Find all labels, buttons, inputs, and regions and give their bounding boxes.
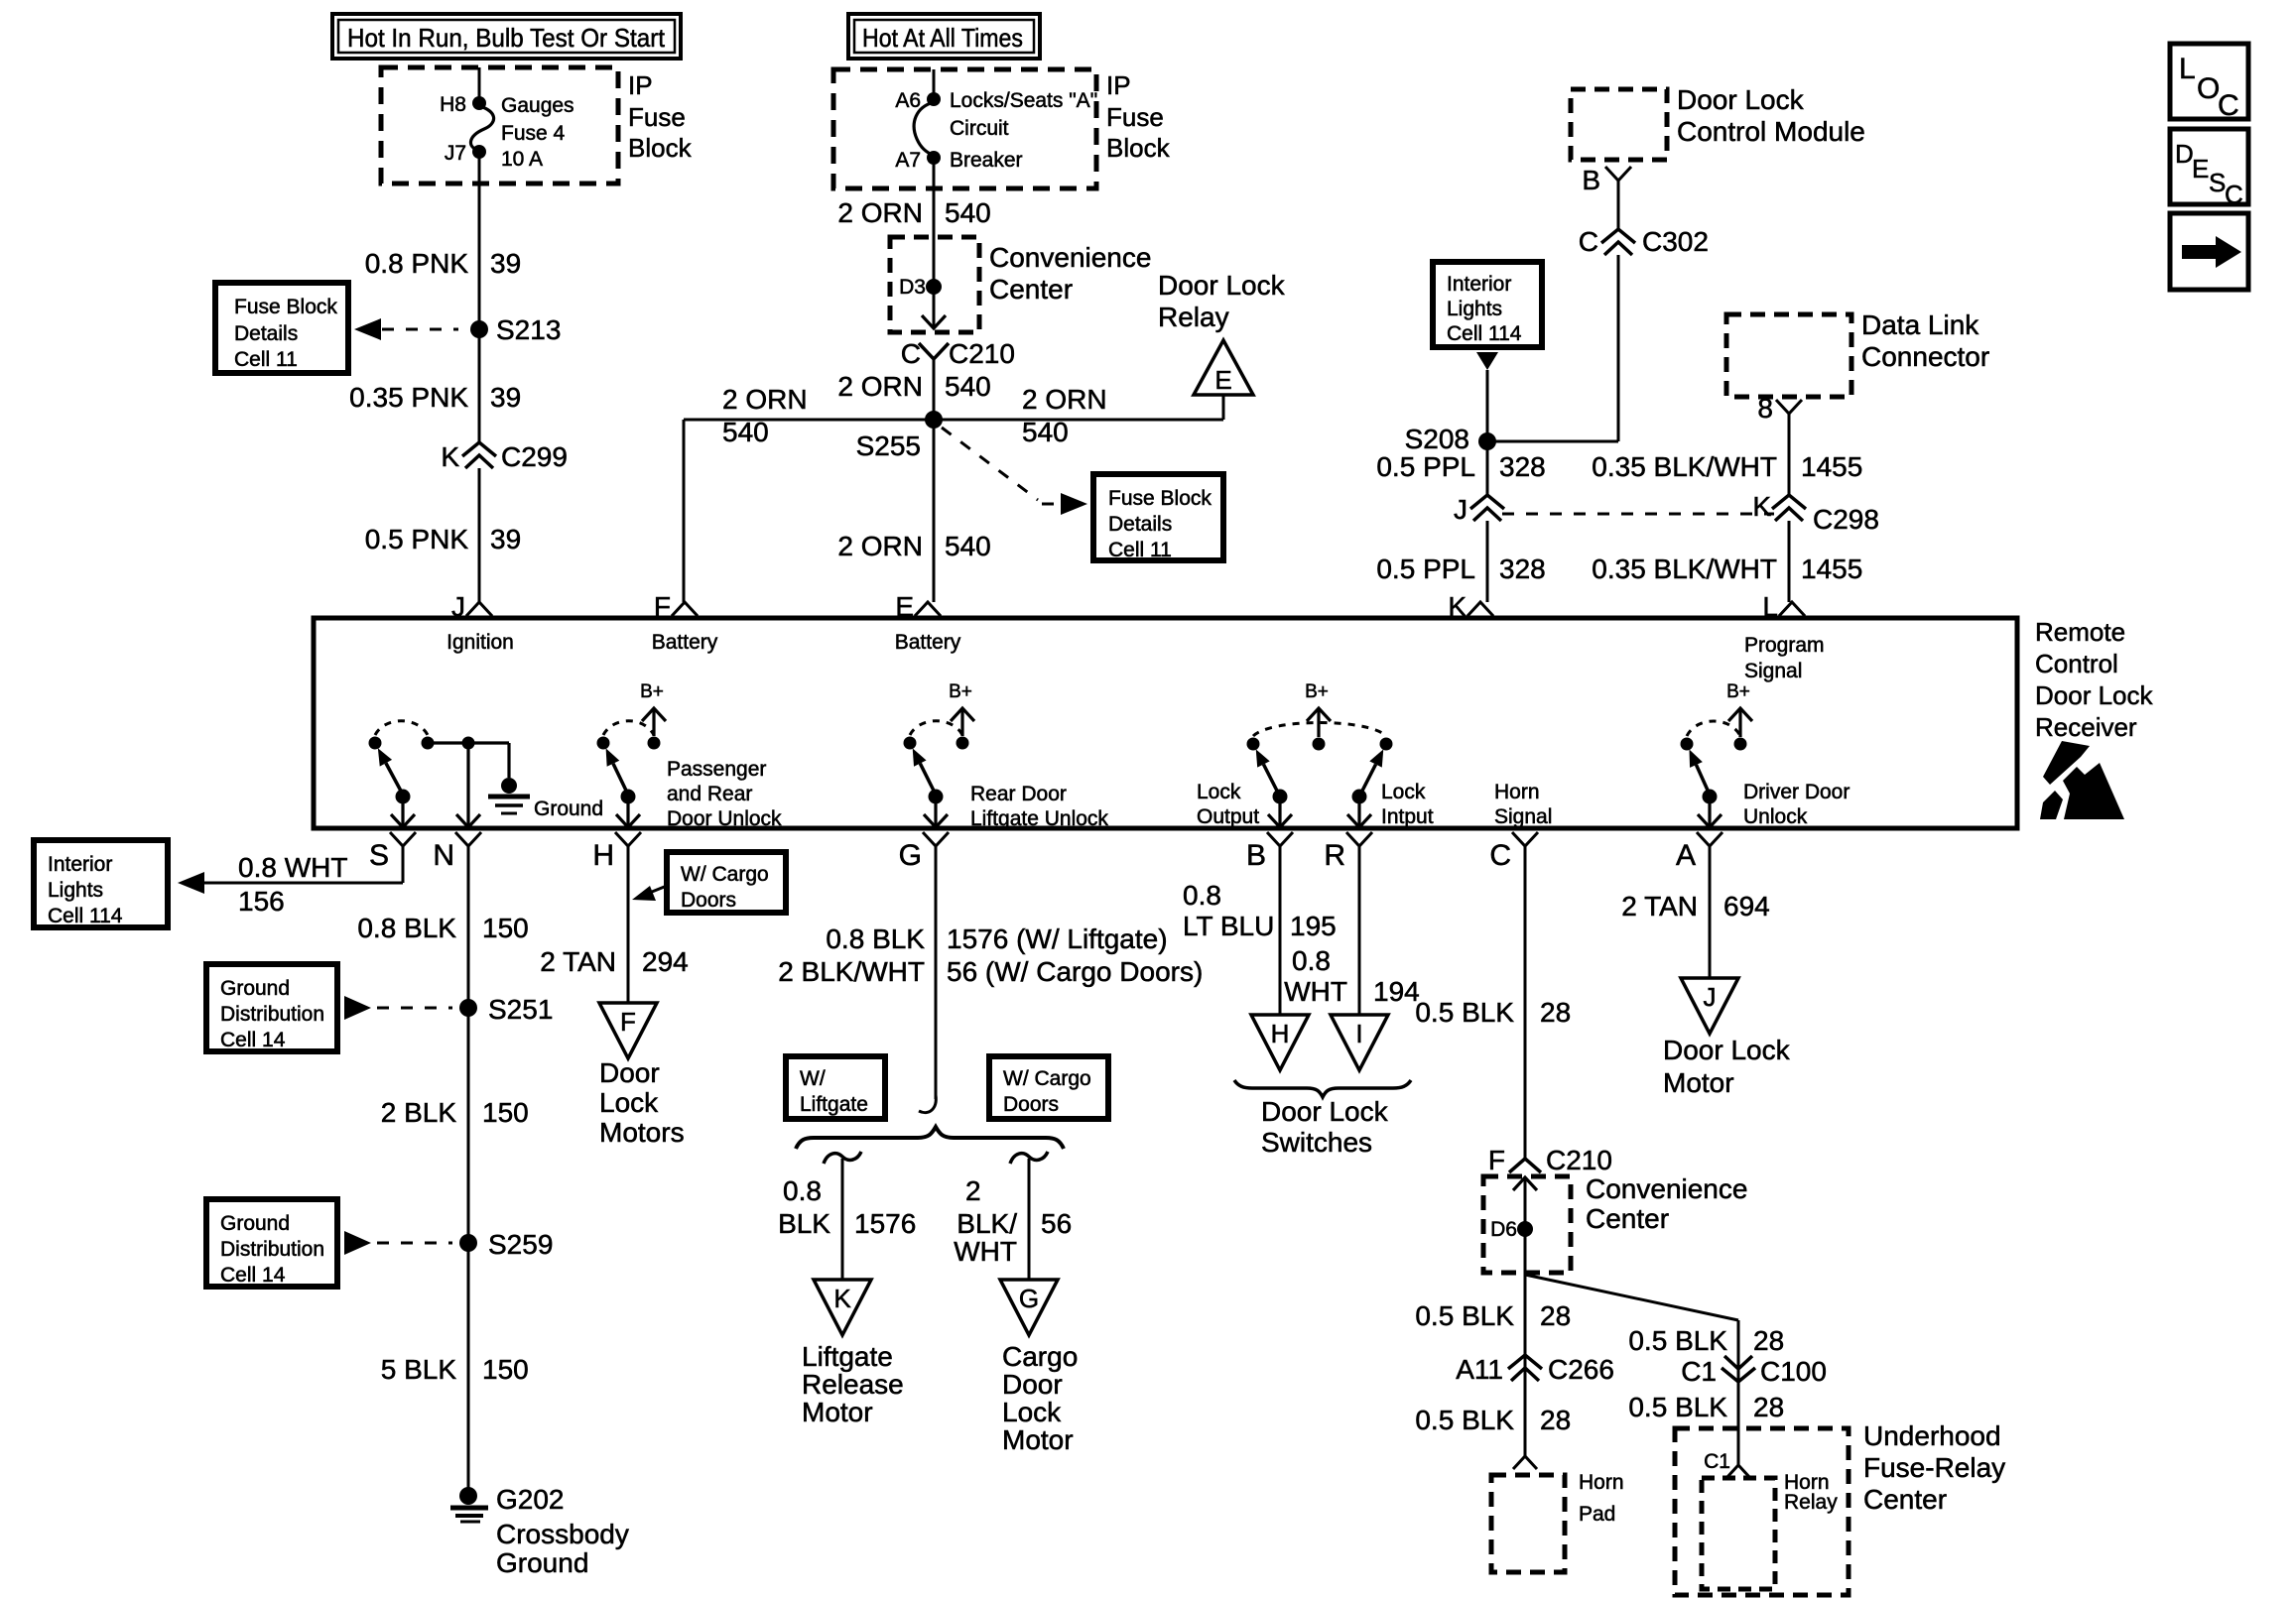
svg-text:and Rear: and Rear xyxy=(667,783,752,805)
off-page triangle F door lock motors xyxy=(599,1003,657,1058)
svg-text:Underhood: Underhood xyxy=(1863,1420,2001,1451)
svg-text:0.8 PNK: 0.8 PNK xyxy=(365,248,469,279)
splice S255 xyxy=(856,411,943,461)
wire: 0.5 PPL 328 from S208 to connector J xyxy=(1486,441,1489,496)
receiver label Battery (F) xyxy=(652,631,718,654)
wire: 0.8 PNK 39 from fuse J7 to S213 xyxy=(478,152,481,329)
svg-text:0.5 PPL: 0.5 PPL xyxy=(1376,451,1475,482)
svg-text:Motor: Motor xyxy=(1663,1067,1734,1098)
svg-text:D6: D6 xyxy=(1490,1218,1517,1241)
connector C298 pin K xyxy=(1752,491,1879,535)
receiver label Ignition xyxy=(446,631,514,654)
svg-text:Motors: Motors xyxy=(599,1117,685,1148)
option box: W/ Cargo Doors (upper) xyxy=(667,852,786,913)
svg-text:Rear Door: Rear Door xyxy=(970,783,1067,805)
svg-text:Doors: Doors xyxy=(681,889,736,912)
svg-text:150: 150 xyxy=(482,1354,529,1385)
fuse Gauges Fuse 4 10A symbol xyxy=(470,106,493,151)
svg-text:28: 28 xyxy=(1753,1325,1784,1356)
dashed reference arrow to S259 xyxy=(344,1231,452,1255)
svg-text:C210: C210 xyxy=(949,338,1015,369)
wire label 0.35 BLK/WHT 1455 (upper) xyxy=(1592,451,1862,482)
svg-text:0.8 WHT: 0.8 WHT xyxy=(238,852,347,883)
Horn Relay label xyxy=(1784,1471,1838,1514)
fuse terminal H8 xyxy=(440,93,486,116)
reference box: Interior Lights Cell 114 (top) xyxy=(1433,262,1542,347)
Door Lock Motors label xyxy=(599,1057,685,1148)
splice S251 xyxy=(459,994,553,1025)
svg-text:Unlock: Unlock xyxy=(1743,805,1808,828)
ignition switch contacts xyxy=(369,721,435,750)
svg-text:B+: B+ xyxy=(640,681,664,702)
svg-text:Hot At All Times: Hot At All Times xyxy=(862,23,1023,53)
svg-text:C: C xyxy=(1489,839,1511,872)
svg-text:Center: Center xyxy=(1863,1484,1947,1515)
wire: 2 BLK 150 S251 to S259 xyxy=(467,1008,470,1243)
svg-text:Door: Door xyxy=(599,1057,660,1088)
svg-text:28: 28 xyxy=(1540,1300,1571,1331)
Door Lock Control Module dashed box xyxy=(1571,89,1667,160)
wire: feed into circuit breaker xyxy=(933,69,936,99)
Convenience Center (lower) label xyxy=(1586,1173,1747,1234)
horn relay pin C1 xyxy=(1704,1450,1750,1478)
wire label 2 BLK/WHT 56 xyxy=(954,1175,1072,1267)
svg-text:28: 28 xyxy=(1540,1405,1571,1435)
svg-text:C: C xyxy=(2218,89,2239,122)
legend box LOC xyxy=(2170,44,2248,122)
svg-text:0.5 BLK: 0.5 BLK xyxy=(1628,1325,1727,1356)
rear door liftgate B+ arrow xyxy=(949,681,974,736)
svg-text:Data Link: Data Link xyxy=(1861,309,1979,340)
door lock relay triangle E xyxy=(1194,340,1253,420)
receiver pin E xyxy=(895,591,941,622)
svg-text:150: 150 xyxy=(482,1097,529,1128)
svg-text:56 (W/ Cargo Doors): 56 (W/ Cargo Doors) xyxy=(947,956,1203,987)
svg-text:0.8: 0.8 xyxy=(1292,945,1331,976)
fuse terminal J7 xyxy=(445,142,486,165)
svg-text:Circuit: Circuit xyxy=(950,117,1009,140)
arrow into convenience center xyxy=(1513,1177,1537,1190)
svg-text:540: 540 xyxy=(722,417,769,447)
svg-text:Fuse: Fuse xyxy=(628,102,686,132)
svg-text:R: R xyxy=(1324,839,1345,872)
wire label 5 BLK 150 xyxy=(381,1354,529,1385)
svg-text:Block: Block xyxy=(1106,133,1171,163)
svg-text:Lock: Lock xyxy=(1002,1397,1062,1427)
arrow out of convenience center xyxy=(922,315,946,328)
svg-text:E: E xyxy=(895,591,914,622)
svg-text:0.8 BLK: 0.8 BLK xyxy=(826,923,925,954)
Underhood Fuse-Relay Center dashed box xyxy=(1675,1428,1849,1595)
svg-text:2 BLK: 2 BLK xyxy=(381,1097,457,1128)
svg-text:Horn: Horn xyxy=(1579,1471,1624,1494)
svg-text:5 BLK: 5 BLK xyxy=(381,1354,457,1385)
svg-text:W/ Cargo: W/ Cargo xyxy=(1003,1067,1091,1090)
svg-text:Lights: Lights xyxy=(48,879,103,902)
wire: 0.8 WHT 156 from pin S to interior lights xyxy=(178,846,403,894)
svg-text:Lock: Lock xyxy=(1197,781,1241,803)
door lock switches brace xyxy=(1234,1080,1411,1097)
off-page triangle G cargo door lock motor xyxy=(1000,1280,1058,1335)
svg-text:Locks/Seats "A": Locks/Seats "A" xyxy=(950,89,1097,112)
svg-text:0.5 BLK: 0.5 BLK xyxy=(1628,1392,1727,1422)
wire label 0.8 WHT 194 xyxy=(1284,945,1419,1007)
svg-text:0.5 BLK: 0.5 BLK xyxy=(1415,997,1514,1028)
svg-text:WHT: WHT xyxy=(954,1236,1017,1267)
receiver label Remote Control Door Lock Receiver xyxy=(2035,617,2153,742)
svg-text:Center: Center xyxy=(989,274,1073,305)
receiver pin S xyxy=(369,832,416,872)
svg-text:Horn: Horn xyxy=(1494,781,1540,803)
svg-text:J7: J7 xyxy=(445,142,466,165)
wire label 2 ORN 540 (above S255) xyxy=(837,371,990,402)
svg-text:F: F xyxy=(654,591,671,622)
svg-text:Battery: Battery xyxy=(895,631,961,654)
legend box arrow xyxy=(2170,213,2248,290)
svg-text:Signal: Signal xyxy=(1744,660,1802,682)
svg-text:S: S xyxy=(369,839,389,872)
svg-text:BLK: BLK xyxy=(778,1208,830,1239)
svg-text:O: O xyxy=(2197,72,2220,105)
svg-text:A: A xyxy=(1676,839,1696,872)
connector C210 pin C xyxy=(901,338,1015,369)
svg-text:H: H xyxy=(592,839,614,872)
lock output wiper xyxy=(1256,749,1292,827)
svg-text:D: D xyxy=(2175,139,2194,169)
svg-text:Liftgate: Liftgate xyxy=(800,1093,868,1116)
svg-text:28: 28 xyxy=(1753,1392,1784,1422)
passenger unlock B+ arrow xyxy=(640,681,666,736)
svg-text:Remote: Remote xyxy=(2035,617,2125,647)
option box: W/ Cargo Doors (middle) xyxy=(989,1056,1108,1119)
Door Lock Switches label xyxy=(1261,1096,1389,1158)
receiver pin C xyxy=(1489,832,1538,872)
svg-text:2: 2 xyxy=(965,1175,981,1206)
receiver label Lock Output xyxy=(1197,781,1259,828)
wire label 2 TAN 294 xyxy=(540,946,689,977)
svg-text:C1: C1 xyxy=(1704,1450,1730,1473)
svg-text:Fuse Block: Fuse Block xyxy=(234,296,337,318)
wire: 0.5 PNK 39 from C299 to receiver pin J xyxy=(478,468,481,602)
splice S259 xyxy=(459,1229,553,1260)
ignition switch wiper xyxy=(378,748,415,827)
svg-text:Interior: Interior xyxy=(1447,273,1511,296)
receiver label Rear Door Liftgate Unlock xyxy=(970,783,1108,830)
receiver pin H xyxy=(592,832,641,872)
svg-text:0.8: 0.8 xyxy=(783,1175,822,1206)
Data Link Connector label xyxy=(1861,309,1989,372)
svg-text:BLK/: BLK/ xyxy=(957,1208,1017,1239)
wire label 0.5 PPL 328 (lower) xyxy=(1376,553,1545,584)
circuit breaker terminal A6 xyxy=(895,89,941,112)
svg-text:Door Lock: Door Lock xyxy=(1663,1035,1791,1065)
svg-text:S259: S259 xyxy=(488,1229,553,1260)
wire: 2 BLK/WHT 56 to cargo door lock motor xyxy=(1028,1159,1031,1280)
svg-text:C302: C302 xyxy=(1642,226,1709,257)
arrow from interior lights into wire xyxy=(1476,352,1498,441)
svg-text:Breaker: Breaker xyxy=(950,149,1023,172)
connector C299 pin K xyxy=(441,441,568,472)
power label box: Hot At All Times xyxy=(848,14,1040,59)
dashed reference arrow to Fuse Block Details xyxy=(354,318,458,340)
dashed connector tie line C298 xyxy=(1502,513,1774,516)
module pin B xyxy=(1582,165,1631,195)
svg-text:2 ORN: 2 ORN xyxy=(837,371,923,402)
Convenience Center dashed box (lower) xyxy=(1483,1176,1571,1273)
svg-text:Distribution: Distribution xyxy=(220,1003,324,1026)
svg-text:10 A: 10 A xyxy=(501,148,543,171)
wire: 0.35 PNK 39 from S213 to C299 xyxy=(478,329,481,443)
Underhood Fuse-Relay Center label xyxy=(1863,1420,2005,1515)
receiver label Battery (E) xyxy=(895,631,961,654)
svg-text:Doors: Doors xyxy=(1003,1093,1059,1116)
svg-text:1576 (W/ Liftgate): 1576 (W/ Liftgate) xyxy=(947,923,1168,954)
svg-text:IP: IP xyxy=(1106,70,1131,100)
receiver pin R xyxy=(1324,832,1372,872)
rear door liftgate switch wiper xyxy=(913,748,948,827)
svg-text:Lock: Lock xyxy=(1381,781,1426,803)
svg-text:0.35 BLK/WHT: 0.35 BLK/WHT xyxy=(1592,553,1777,584)
svg-text:0.8: 0.8 xyxy=(1183,880,1221,911)
wire: 0.35 BLK/WHT 1455 from C298 to receiver pin L xyxy=(1788,521,1791,602)
wire: N contact down xyxy=(456,743,480,827)
power label box: Hot In Run, Bulb Test Or Start xyxy=(332,14,681,59)
connector C266 pin A11 xyxy=(1456,1354,1614,1385)
svg-text:B: B xyxy=(1582,165,1600,195)
receiver pin N xyxy=(433,832,481,872)
svg-text:E: E xyxy=(1214,365,1231,395)
lock input wiper xyxy=(1347,749,1383,827)
svg-text:K: K xyxy=(1752,491,1771,522)
wire: 0.5 PPL 328 from C298 to receiver pin K xyxy=(1486,521,1489,602)
svg-text:IP: IP xyxy=(628,70,653,100)
svg-text:39: 39 xyxy=(490,524,521,554)
svg-text:0.35 BLK/WHT: 0.35 BLK/WHT xyxy=(1592,451,1777,482)
reference box: Interior Lights Cell 114 (left) xyxy=(34,840,168,927)
svg-text:56: 56 xyxy=(1041,1208,1072,1239)
wire: module pin B down to C302 xyxy=(1617,181,1620,230)
svg-text:F: F xyxy=(620,1007,636,1037)
wire label 0.5 PNK 39 xyxy=(365,524,521,554)
svg-text:Output: Output xyxy=(1197,805,1259,828)
svg-text:Control: Control xyxy=(2035,649,2118,678)
wire label 0.5 BLK 28 (top) xyxy=(1415,997,1571,1028)
svg-text:S213: S213 xyxy=(496,314,561,345)
svg-text:Cell 14: Cell 14 xyxy=(220,1264,286,1287)
reference box: Ground Distribution Cell 14 (lower) xyxy=(206,1199,337,1287)
ESD sensitivity symbol xyxy=(2040,741,2124,819)
dashed reference arrow from S255 to fuse block details xyxy=(942,428,1087,515)
svg-text:Block: Block xyxy=(628,133,693,163)
svg-text:Lights: Lights xyxy=(1447,298,1502,320)
svg-text:C298: C298 xyxy=(1813,504,1879,535)
svg-text:1455: 1455 xyxy=(1801,553,1862,584)
svg-text:Intput: Intput xyxy=(1381,805,1434,828)
connector C302 pin C xyxy=(1579,226,1709,257)
junction D6 in convenience center xyxy=(1490,1218,1533,1241)
wire label 0.8 BLK 150 xyxy=(357,913,528,943)
svg-text:Cell 114: Cell 114 xyxy=(48,905,123,927)
svg-text:Fuse Block: Fuse Block xyxy=(1108,487,1212,510)
svg-text:K: K xyxy=(1448,591,1467,622)
svg-text:WHT: WHT xyxy=(1284,976,1347,1007)
wire label 0.8 WHT 156 xyxy=(238,852,347,917)
svg-text:B+: B+ xyxy=(1726,681,1750,702)
svg-text:2 ORN: 2 ORN xyxy=(837,197,923,228)
svg-text:2 ORN: 2 ORN xyxy=(722,384,808,415)
driver door unlock B+ arrow xyxy=(1726,681,1752,737)
svg-text:L: L xyxy=(2179,53,2196,85)
receiver label Passenger and Rear Door Unlock xyxy=(667,758,782,830)
off-page triangle H door lock switch xyxy=(1251,1015,1309,1070)
svg-text:Cargo: Cargo xyxy=(1002,1341,1078,1372)
svg-text:A6: A6 xyxy=(895,89,921,112)
IP Fuse Block (left) dashed box xyxy=(381,67,618,184)
wire label 2 ORN 540 (right of S255) xyxy=(1022,384,1107,447)
svg-text:I: I xyxy=(1355,1019,1362,1048)
svg-text:B: B xyxy=(1246,839,1266,872)
svg-text:C: C xyxy=(901,338,921,369)
wire: C302 down and over to S208 xyxy=(1487,255,1618,441)
svg-text:C299: C299 xyxy=(501,441,568,472)
svg-text:Door Lock: Door Lock xyxy=(2035,680,2153,710)
passenger unlock switch wiper xyxy=(606,748,640,827)
svg-text:W/ Cargo: W/ Cargo xyxy=(681,863,769,886)
svg-text:E: E xyxy=(2192,154,2209,184)
svg-text:Cell 14: Cell 14 xyxy=(220,1029,286,1051)
svg-text:540: 540 xyxy=(945,197,991,228)
svg-text:Lock: Lock xyxy=(599,1087,659,1118)
svg-text:C266: C266 xyxy=(1548,1354,1614,1385)
svg-text:L: L xyxy=(1762,591,1778,622)
svg-text:A7: A7 xyxy=(895,149,921,172)
option arrow to H wire xyxy=(632,886,667,901)
svg-text:H8: H8 xyxy=(440,93,466,116)
svg-text:B+: B+ xyxy=(1305,681,1329,702)
svg-text:0.8 BLK: 0.8 BLK xyxy=(357,913,456,943)
wire: pin G down (liftgate/cargo option) xyxy=(919,846,936,1113)
driver door unlock wiper xyxy=(1689,749,1722,827)
svg-text:B+: B+ xyxy=(949,681,972,702)
svg-text:C: C xyxy=(2225,180,2243,209)
internal ground symbol xyxy=(488,778,603,820)
svg-text:Ground: Ground xyxy=(496,1547,588,1578)
svg-text:Pad: Pad xyxy=(1579,1503,1615,1526)
svg-text:Distribution: Distribution xyxy=(220,1238,324,1261)
connector C210 pin F xyxy=(1488,1145,1612,1175)
svg-text:S: S xyxy=(2209,168,2226,197)
Cargo Door Lock Motor label xyxy=(1002,1341,1078,1455)
wire: 2 TAN 294 pin H to door lock motors xyxy=(627,846,630,1003)
receiver pin F xyxy=(654,591,698,622)
svg-text:Receiver: Receiver xyxy=(2035,712,2137,742)
svg-text:328: 328 xyxy=(1499,451,1546,482)
cargo branch curl xyxy=(1010,1152,1048,1164)
svg-text:Details: Details xyxy=(234,322,298,345)
svg-text:S208: S208 xyxy=(1405,424,1469,454)
wire: 0.8 LT BLU 195 pin B to switch H xyxy=(1279,846,1282,1015)
wire: D6 down to A11 C266 xyxy=(1524,1177,1527,1456)
Horn Pad dashed box xyxy=(1491,1475,1565,1572)
dashed reference arrow to S251 xyxy=(344,996,452,1020)
svg-text:195: 195 xyxy=(1290,911,1337,941)
svg-text:Fuse 4: Fuse 4 xyxy=(501,122,566,145)
svg-text:0.5 PPL: 0.5 PPL xyxy=(1376,553,1475,584)
Convenience Center dashed box (top) xyxy=(890,237,979,332)
svg-text:194: 194 xyxy=(1373,976,1420,1007)
wire: left branch down to receiver pin F xyxy=(683,420,686,602)
wire label 0.5 PPL 328 (upper) xyxy=(1376,451,1545,482)
svg-text:Connector: Connector xyxy=(1861,341,1989,372)
svg-text:Motor: Motor xyxy=(802,1397,873,1427)
lock switch B+ arrow xyxy=(1305,681,1331,737)
circuit breaker label: Locks/Seats "A" Circuit Breaker xyxy=(950,89,1097,172)
svg-text:Details: Details xyxy=(1108,513,1172,536)
wire label 0.8 LT BLU 195 xyxy=(1183,880,1337,941)
svg-text:39: 39 xyxy=(490,382,521,413)
wire: feed into fuse block xyxy=(478,67,481,103)
svg-text:Door Lock: Door Lock xyxy=(1158,270,1286,301)
Convenience Center (top) label xyxy=(989,242,1151,305)
wire: 2 ORN 540 from C210 to S255 xyxy=(933,359,936,420)
splice S208 xyxy=(1405,424,1496,454)
svg-text:2 TAN: 2 TAN xyxy=(1621,891,1698,922)
receiver pin B xyxy=(1246,832,1293,872)
svg-text:0.5 BLK: 0.5 BLK xyxy=(1415,1405,1514,1435)
receiver label Driver Door Unlock xyxy=(1743,781,1850,828)
wire: 2 TAN 694 pin A to door lock motor xyxy=(1709,846,1712,978)
option box: W/ Liftgate xyxy=(786,1056,885,1119)
wire: 2 ORN 540 bus from F branch to door lock relay xyxy=(684,419,1223,422)
svg-text:0.35 PNK: 0.35 PNK xyxy=(349,382,468,413)
wire: 0.35 BLK/WHT 1455 from DLC to C298 xyxy=(1788,414,1791,496)
svg-text:G: G xyxy=(899,839,922,872)
option brace xyxy=(796,1127,1064,1149)
wire: 2 ORN 540 S255 down to receiver pin E xyxy=(933,420,936,602)
ground G202 Crossbody Ground xyxy=(450,1484,629,1578)
wire label 0.5 BLK 28 (left low) xyxy=(1415,1405,1571,1435)
svg-text:Signal: Signal xyxy=(1494,805,1552,828)
svg-text:Door Lock: Door Lock xyxy=(1677,84,1805,115)
Door Lock Motor label xyxy=(1663,1035,1791,1098)
svg-text:C100: C100 xyxy=(1760,1356,1827,1387)
connector C298 pin J xyxy=(1454,494,1504,525)
svg-text:LT BLU: LT BLU xyxy=(1183,911,1274,941)
svg-text:28: 28 xyxy=(1540,997,1571,1028)
svg-text:Liftgate Unlock: Liftgate Unlock xyxy=(970,807,1108,830)
wire label 0.35 BLK/WHT 1455 (lower) xyxy=(1592,553,1862,584)
svg-text:S251: S251 xyxy=(488,994,553,1025)
svg-text:294: 294 xyxy=(642,946,689,977)
svg-text:8: 8 xyxy=(1757,393,1773,424)
svg-text:Fuse-Relay: Fuse-Relay xyxy=(1863,1452,2005,1483)
Door Lock Relay label xyxy=(1158,270,1286,332)
wire label 2 BLK 150 xyxy=(381,1097,529,1128)
Door Lock Control Module label xyxy=(1677,84,1865,147)
off-page triangle J door lock motor xyxy=(1681,978,1738,1034)
reference box: Ground Distribution Cell 14 (upper) xyxy=(206,964,337,1051)
wire: 0.8 WHT 194 pin R to switch I xyxy=(1358,846,1361,1015)
reference box: Fuse Block Details Cell 11 xyxy=(215,283,348,373)
svg-text:540: 540 xyxy=(1022,417,1069,447)
circuit breaker terminal A7 xyxy=(895,149,941,172)
svg-text:Relay: Relay xyxy=(1158,302,1229,332)
wire: 2 ORN 540 breaker to convenience center xyxy=(933,158,936,327)
svg-text:Passenger: Passenger xyxy=(667,758,766,781)
svg-text:0.5 BLK: 0.5 BLK xyxy=(1415,1300,1514,1331)
svg-text:A11: A11 xyxy=(1456,1354,1503,1385)
IP Fuse Block (middle) label xyxy=(1106,70,1171,163)
